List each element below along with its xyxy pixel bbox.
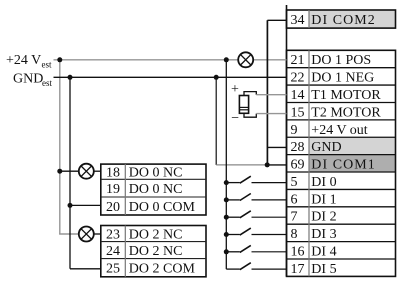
svg-text:DI 4: DI 4	[311, 245, 336, 260]
switch DI 1	[224, 194, 287, 203]
svg-text:28: 28	[291, 140, 305, 155]
svg-text:20: 20	[106, 200, 120, 215]
svg-text:34: 34	[291, 13, 305, 28]
wire to pin 25 DO 2 COM	[70, 268, 101, 270]
svg-text:est: est	[42, 78, 52, 88]
svg-text:DO 0 COM: DO 0 COM	[129, 200, 196, 215]
thermistor R motor PTC	[239, 96, 248, 114]
pin 28 label GND	[291, 140, 342, 155]
svg-text:69: 69	[291, 158, 305, 173]
svg-text:DI COM2: DI COM2	[311, 13, 376, 28]
net label GND est	[13, 72, 52, 88]
terminal block DO 2	[101, 226, 206, 277]
terminal block rows 21..17	[287, 50, 396, 276]
svg-text:DI COM1: DI COM1	[311, 158, 376, 173]
svg-text:DI 0: DI 0	[311, 175, 336, 190]
node pin20 branch	[68, 203, 73, 208]
svg-text:23: 23	[106, 227, 120, 242]
svg-text:DI 1: DI 1	[311, 192, 336, 207]
svg-text:DI 3: DI 3	[311, 227, 336, 242]
node lamp H3 branch	[57, 169, 62, 174]
switch DI 4	[224, 245, 287, 254]
lamp H1 (circle with X)	[238, 52, 253, 67]
node DI common branch junction	[224, 57, 229, 62]
svg-text:DO 0 NC: DO 0 NC	[129, 182, 183, 197]
pin 5 label DI 0	[291, 175, 337, 190]
wire horizontal into node 69	[216, 164, 267, 166]
switch DI 3	[224, 228, 287, 237]
svg-text:5: 5	[291, 175, 298, 190]
wire lamp H1 to pin 21	[253, 59, 286, 61]
node +24V junction	[57, 57, 62, 62]
pin 17 label DI 5	[291, 262, 337, 277]
switch DI 5	[226, 263, 286, 270]
wire GND horizontal to pin 22	[54, 76, 287, 78]
pin 19 label DO 0 NC	[106, 182, 182, 197]
terminal block DO 0	[101, 164, 206, 215]
svg-text:+24 V: +24 V	[6, 53, 41, 68]
pin 24 label DO 2 NC	[106, 244, 182, 259]
svg-text:−: −	[231, 111, 239, 126]
wire lamp H3 to pin 18	[94, 170, 101, 172]
switch DI 0	[224, 176, 287, 185]
pin 25 label DO 2 COM	[106, 262, 195, 277]
pin 15 label T2 MOTOR	[291, 105, 382, 120]
svg-text:15: 15	[291, 105, 305, 120]
svg-text:GND: GND	[13, 72, 43, 87]
pin 20 label DO 0 COM	[106, 200, 195, 215]
wire to pin 20 DO 0 COM	[70, 204, 101, 206]
wire +24V vertical branch	[59, 60, 61, 234]
node GND junction	[68, 75, 73, 80]
svg-text:9: 9	[291, 123, 298, 138]
svg-text:+: +	[231, 82, 239, 97]
wire lamp H2 to pin 23	[94, 233, 101, 235]
svg-text:14: 14	[291, 88, 305, 103]
svg-text:DO 2 NC: DO 2 NC	[129, 244, 183, 259]
svg-text:19: 19	[106, 182, 120, 197]
terminal block pin 34 DI COM2	[287, 10, 396, 28]
node DI COM junction	[265, 162, 270, 167]
pin 14 label T1 MOTOR	[291, 88, 382, 103]
wire GND branch down to DI COM1	[215, 77, 217, 165]
wire into pin 28 GND	[267, 146, 286, 148]
svg-text:7: 7	[291, 210, 298, 225]
DI switches common vertical	[225, 60, 227, 269]
pin 18 label DO 0 NC	[106, 166, 182, 181]
svg-text:DO 0 NC: DO 0 NC	[129, 166, 183, 181]
svg-text:DO 1 POS: DO 1 POS	[311, 53, 371, 68]
terminal block rail	[286, 5, 288, 276]
svg-text:6: 6	[291, 192, 298, 207]
pin 22 label DO 1 NEG	[291, 71, 375, 86]
svg-text:17: 17	[291, 262, 305, 277]
wire pin 34 jumper vertical	[266, 20, 268, 165]
net label +24 V est	[6, 53, 52, 69]
wire GND vertical branch	[69, 77, 71, 268]
svg-text:21: 21	[291, 53, 305, 68]
svg-text:8: 8	[291, 227, 298, 242]
pin 16 label DI 4	[291, 245, 337, 260]
lamp H2 (circle with X)	[79, 227, 94, 242]
node GND right junction	[214, 75, 219, 80]
pin 8 label DI 3	[291, 227, 337, 242]
pin 6 label DI 1	[291, 192, 337, 207]
svg-text:GND: GND	[311, 140, 341, 155]
wire into pin 34	[267, 19, 286, 21]
svg-text:DO 2 COM: DO 2 COM	[129, 262, 196, 277]
svg-text:DO 2 NC: DO 2 NC	[129, 227, 183, 242]
pin 21 label DO 1 POS	[291, 53, 372, 68]
wire node to pin 69 DI COM1	[267, 164, 286, 166]
lamp H3 (circle with X)	[79, 164, 94, 179]
wire +24V horizontal to lamp H1 and pin 21	[54, 59, 239, 61]
svg-text:DO 1 NEG: DO 1 NEG	[311, 71, 374, 86]
pin 23 label DO 2 NC	[106, 227, 182, 242]
pin 7 label DI 2	[291, 210, 337, 225]
svg-text:DI 2: DI 2	[311, 210, 336, 225]
svg-text:24: 24	[106, 244, 120, 259]
svg-text:16: 16	[291, 245, 305, 260]
svg-text:T2 MOTOR: T2 MOTOR	[311, 105, 381, 120]
pin 9 label +24 V out	[291, 123, 368, 138]
svg-text:DI 5: DI 5	[311, 262, 336, 277]
switch DI 2	[224, 211, 287, 220]
svg-text:+24 V out: +24 V out	[311, 123, 368, 138]
pin 69 label DI COM1	[291, 158, 376, 173]
wire branch to lamp H3	[60, 170, 79, 172]
wire to lamp H2	[59, 233, 79, 235]
thermistor bottom lead to pin 15	[244, 113, 287, 117]
svg-text:18: 18	[106, 166, 120, 181]
thermistor top lead to pin 14	[244, 92, 287, 96]
svg-text:T1 MOTOR: T1 MOTOR	[311, 88, 381, 103]
svg-text:25: 25	[106, 262, 120, 277]
svg-text:22: 22	[291, 71, 305, 86]
svg-text:est: est	[42, 59, 52, 69]
